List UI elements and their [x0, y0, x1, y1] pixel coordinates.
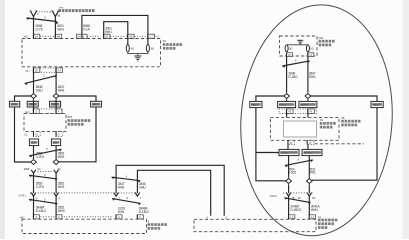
tiny dot left of heading	[50, 11, 51, 12]
pin 26	[33, 68, 40, 73]
svg-text:9Ω: 9Ω	[310, 46, 313, 50]
right page edge strip	[403, 0, 409, 239]
pin 4	[56, 109, 62, 114]
dotted row segment	[155, 35, 160, 37]
switch S10 blade	[284, 196, 311, 204]
pin 24	[33, 34, 40, 39]
wire B lower	[55, 196, 57, 215]
splice diamond DE4	[306, 179, 312, 184]
inline connector arrow left	[31, 170, 36, 173]
dashed line mid right	[315, 143, 365, 145]
svg-text:1C: 1C	[288, 53, 291, 57]
svg-text:3H 24: 3H 24	[77, 35, 84, 39]
wire DE2 down	[307, 99, 309, 101]
module M3 text blob	[148, 223, 167, 226]
arrow conn E2	[307, 193, 312, 197]
switch S2 blade	[25, 73, 58, 85]
wire B2 down	[33, 99, 35, 109]
switch S1 blade	[26, 15, 58, 24]
dotted row	[38, 216, 113, 218]
svg-text:4T: 4T	[290, 141, 293, 145]
loop wire from B1 to D3	[15, 107, 31, 162]
svg-text:28460-BU: 28460-BU	[36, 85, 44, 92]
svg-text:H2 |: H2 |	[24, 35, 29, 39]
svg-text:8021WH1: 8021WH1	[57, 24, 64, 31]
svg-text:2847WH1: 2847WH1	[118, 182, 125, 189]
module M3 text blob2	[148, 227, 161, 230]
svg-text:1.1: 1.1	[311, 215, 315, 219]
ground E1	[297, 40, 303, 45]
wire down to D4	[55, 146, 57, 159]
svg-text:1B: 1B	[341, 116, 344, 120]
svg-text:4B: 4B	[57, 35, 60, 39]
wire E lower right	[308, 196, 310, 215]
svg-text:3.4: 3.4	[58, 68, 62, 72]
arrow conn B	[54, 193, 59, 197]
module M1 label text blob	[163, 43, 182, 46]
svg-text:T3H4: T3H4	[251, 103, 258, 107]
wire E lower left	[288, 196, 290, 215]
pin 2w	[137, 215, 143, 220]
wire BE3 down	[288, 156, 290, 178]
resistor R2 lead	[147, 39, 149, 45]
dashed pin strip	[40, 68, 56, 72]
svg-text:2F: 2F	[298, 196, 301, 200]
pin 10 dashed	[33, 131, 40, 136]
module M4 text blob	[318, 219, 337, 222]
wire left switch leg	[33, 17, 35, 35]
splice diamond DE3	[286, 179, 292, 184]
splice diamond D2	[53, 94, 59, 99]
heading text blob 车窗开关照明	[59, 9, 95, 12]
svg-text:1T: 1T	[309, 141, 312, 145]
pin row E dashed strip	[279, 109, 317, 113]
wire from D1 to box B1	[15, 96, 31, 101]
dashed link between Y tops	[37, 11, 53, 13]
svg-text:3W7≡4: 3W7≡4	[300, 103, 309, 107]
wire stub ME left	[286, 113, 288, 117]
svg-text:2951WH0: 2951WH0	[58, 206, 65, 213]
pin 17	[148, 34, 155, 39]
wire bridge JS01	[104, 22, 128, 35]
svg-text:28460-BU: 28460-BU	[139, 182, 147, 189]
wire TE2 drop	[312, 108, 377, 181]
left page edge strip	[0, 0, 5, 239]
dotted inline row	[38, 170, 53, 172]
switch S8 blade	[282, 59, 310, 68]
pin 4T a	[286, 109, 293, 114]
wire DE4 down	[308, 184, 310, 193]
svg-text:4X7≡4: 4X7≡4	[280, 151, 288, 155]
pin 11	[309, 215, 316, 219]
pin 5	[33, 109, 39, 114]
pin 4B	[55, 34, 62, 39]
box TE2	[371, 101, 383, 107]
svg-text:B75: B75	[68, 115, 73, 119]
svg-text:3W7≡4: 3W7≡4	[303, 151, 312, 155]
wire inner loop	[137, 170, 210, 216]
box B3	[50, 101, 61, 107]
wire down to D3	[33, 146, 35, 159]
box B4	[91, 101, 102, 107]
wire stub BE4	[307, 145, 309, 150]
ground	[134, 56, 141, 61]
branch TE1 to BE3	[256, 152, 279, 154]
wire DE1 down	[286, 99, 288, 101]
svg-text:c3P1: c3P1	[10, 103, 16, 107]
wire BE4 down	[308, 156, 310, 178]
svg-text:X1 |: X1 |	[25, 69, 30, 73]
svg-text:(): ()	[225, 215, 227, 219]
pin 12	[288, 215, 295, 219]
svg-text:1T: 1T	[309, 53, 312, 57]
pin 1T d dashed	[307, 140, 314, 145]
ME text blob2	[320, 126, 333, 129]
resistor R1	[126, 44, 129, 52]
wire joining resistor tops	[287, 44, 308, 46]
svg-text:3998: 3998	[24, 167, 30, 171]
svg-text:U.1: U.1	[53, 141, 57, 145]
wire A lower	[33, 196, 35, 215]
wire E left	[286, 57, 288, 93]
svg-text:4Ω: 4Ω	[131, 46, 134, 50]
pin 34	[56, 68, 63, 73]
svg-text:K53: K53	[319, 36, 324, 40]
splice diamond DE2	[305, 94, 311, 99]
pin 4T c dashed	[288, 140, 295, 145]
svg-text:3.001WH1: 3.001WH1	[118, 207, 126, 214]
arrow conn E1	[286, 193, 291, 197]
wire DE1 to TE1	[256, 96, 284, 101]
switch S4 blade	[29, 173, 58, 181]
svg-text:21·: 21·	[24, 133, 28, 137]
pin 3	[33, 215, 39, 220]
box BE2	[299, 101, 317, 107]
resistor R4	[306, 45, 309, 52]
svg-text:9Ω: 9Ω	[289, 46, 292, 50]
splice diamond D3	[31, 160, 37, 165]
dashed pin strip	[33, 109, 62, 114]
splice diamond D1	[31, 94, 37, 99]
module M1 label text blob2	[163, 47, 176, 50]
svg-text:JS01WH1: JS01WH1	[105, 27, 112, 34]
pin 3H 24	[77, 34, 87, 39]
svg-text:U.1: U.1	[31, 141, 35, 145]
pin 23	[103, 34, 110, 39]
connector Y top left	[30, 11, 38, 17]
svg-text:(B: (B	[58, 14, 61, 18]
pin 4w	[116, 215, 122, 220]
wire outer loop	[116, 165, 224, 216]
pin 4T b	[308, 109, 315, 114]
svg-text:2851WH1: 2851WH1	[58, 182, 65, 189]
arrow conn A	[31, 193, 36, 197]
svg-text:X714 |: X714 |	[18, 194, 26, 198]
module M2 text blob	[68, 119, 91, 122]
svg-text:X314 |: X314 |	[270, 194, 278, 198]
module M4 text blob3	[318, 226, 327, 229]
svg-text:c0P1: c0P1	[92, 103, 98, 107]
svg-text:2847WH1: 2847WH1	[309, 72, 316, 79]
inner solid box	[284, 121, 317, 137]
wire E right	[307, 57, 309, 93]
switch S7 blade	[112, 196, 141, 205]
wire from D2 to box B4	[59, 96, 96, 101]
wire DE3 down	[288, 184, 290, 193]
inline box 4M left	[29, 139, 38, 146]
pin 1C	[286, 53, 292, 57]
svg-text:4T: 4T	[288, 110, 291, 114]
dotted row segment	[87, 35, 100, 37]
wire stub BE3	[287, 145, 289, 150]
wire left leg	[33, 73, 35, 94]
wire TE1 drop	[256, 108, 286, 181]
wire stub ME right	[307, 113, 309, 117]
svg-text:1.2: 1.2	[290, 215, 294, 219]
svg-text:4T: 4T	[309, 110, 312, 114]
box B2	[27, 101, 38, 107]
loop wire from B4 to D4	[59, 107, 96, 162]
pin 17 dashed	[56, 131, 63, 136]
connector Y top right	[52, 11, 60, 17]
box B1	[9, 101, 19, 107]
ME right text blob	[341, 120, 360, 123]
resistor R2	[146, 44, 149, 52]
pin 2	[56, 215, 62, 220]
svg-text:1.7: 1.7	[149, 35, 153, 39]
text blob K53a	[319, 40, 335, 43]
inline box 4M right	[51, 139, 60, 146]
dotted row X314	[283, 192, 314, 194]
svg-text:T3H4: T3H4	[372, 103, 379, 107]
wire right switch leg	[54, 17, 56, 35]
switch S3 blade	[29, 147, 62, 158]
splice diamond D4	[53, 160, 59, 165]
ME right text blob2	[341, 124, 357, 127]
box BE3	[279, 149, 299, 155]
ME text blob	[320, 122, 336, 125]
pin 1T	[308, 53, 314, 57]
box BE1	[278, 101, 296, 107]
wire B3 down	[55, 99, 57, 109]
box TE1	[250, 101, 262, 107]
dotted row segment	[110, 35, 127, 37]
wire right leg	[55, 73, 57, 94]
dotted row segment	[134, 35, 147, 37]
switch S9 blade	[285, 158, 313, 168]
resistor R3	[285, 45, 288, 52]
svg-text:1B: 1B	[312, 196, 315, 200]
ground stem	[137, 54, 139, 56]
svg-text:2851WH1: 2851WH1	[58, 152, 65, 159]
arrow conn C	[114, 193, 119, 197]
heading overline dash	[59, 7, 63, 8]
dotted row segment	[40, 35, 55, 37]
splice diamond DE1	[284, 94, 290, 99]
arrow conn D	[135, 193, 140, 197]
box BE4	[302, 149, 322, 155]
wire DE2 to TE2	[311, 96, 377, 101]
wire down right	[55, 173, 57, 193]
module M4 text blob2	[318, 222, 334, 225]
svg-text:2847WH1: 2847WH1	[58, 85, 65, 92]
svg-text:4X7≡4: 4X7≡4	[279, 103, 287, 107]
switch S6 blade	[111, 174, 140, 182]
wire joining resistors	[128, 52, 148, 54]
wire feed left riser	[82, 15, 148, 34]
resistor R1 lead	[127, 39, 129, 45]
switch S5 blade	[29, 197, 58, 205]
wire down left	[33, 173, 35, 193]
svg-text:9Ω: 9Ω	[151, 46, 154, 50]
module M2 text blob2	[68, 123, 84, 126]
svg-text:88480-1A: 88480-1A	[83, 24, 90, 31]
inline connector arrow right	[54, 170, 59, 173]
svg-text:2521WH1: 2521WH1	[309, 167, 316, 174]
pin 49	[128, 34, 135, 39]
dotted row X714	[30, 192, 140, 194]
svg-text:(): ()	[206, 215, 208, 219]
text blob K53b	[319, 44, 332, 47]
